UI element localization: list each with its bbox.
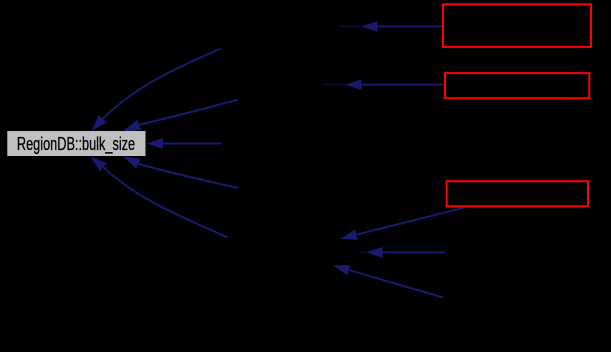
invisible node A (caller, black on black)	[221, 8, 361, 46]
red box 3 (truncated caller node)	[447, 181, 588, 206]
arrow edge R3: red box 3 -> invisible node E (diagonal)	[341, 208, 465, 240]
arrow edge R4: invisible node F -> invisible node E (horizontal)	[360, 247, 446, 258]
invisible node D (caller, black on black)	[238, 176, 358, 202]
svg-text:RegionDB::bulk_size: RegionDB::bulk_size	[17, 134, 135, 155]
arrow edge R5: invisible node G -> invisible node E (diagonal)	[333, 265, 443, 298]
invisible node F (caller, black on black)	[446, 240, 590, 266]
arrow edge A2: invisible node B -> RegionDB::bulk_size	[123, 100, 238, 132]
arrow edge A1: invisible node A -> RegionDB::bulk_size (curved)	[92, 48, 221, 131]
invisible node G (caller, black on black)	[443, 285, 589, 311]
current node RegionDB::bulk_size (grey box)	[7, 131, 145, 156]
arrow edge A5: invisible node E -> RegionDB::bulk_size (curved)	[91, 157, 228, 238]
arrow edge R2: red box 2 -> invisible node B (horizontal)	[324, 79, 444, 90]
red box 2 (truncated caller node)	[445, 73, 589, 98]
invisible node E (caller, black on black)	[226, 239, 366, 266]
invisible node B (caller, black on black)	[238, 72, 345, 98]
arrow edge A4: invisible node D -> RegionDB::bulk_size	[123, 156, 238, 188]
red box 1 (truncated caller node, two lines)	[443, 4, 591, 47]
arrow edge A3: invisible node C -> RegionDB::bulk_size (horizontal)	[147, 138, 223, 149]
invisible node C (caller, black on black)	[222, 131, 340, 156]
arrow edge R1: red box 1 -> invisible node A (horizontal)	[340, 21, 443, 32]
